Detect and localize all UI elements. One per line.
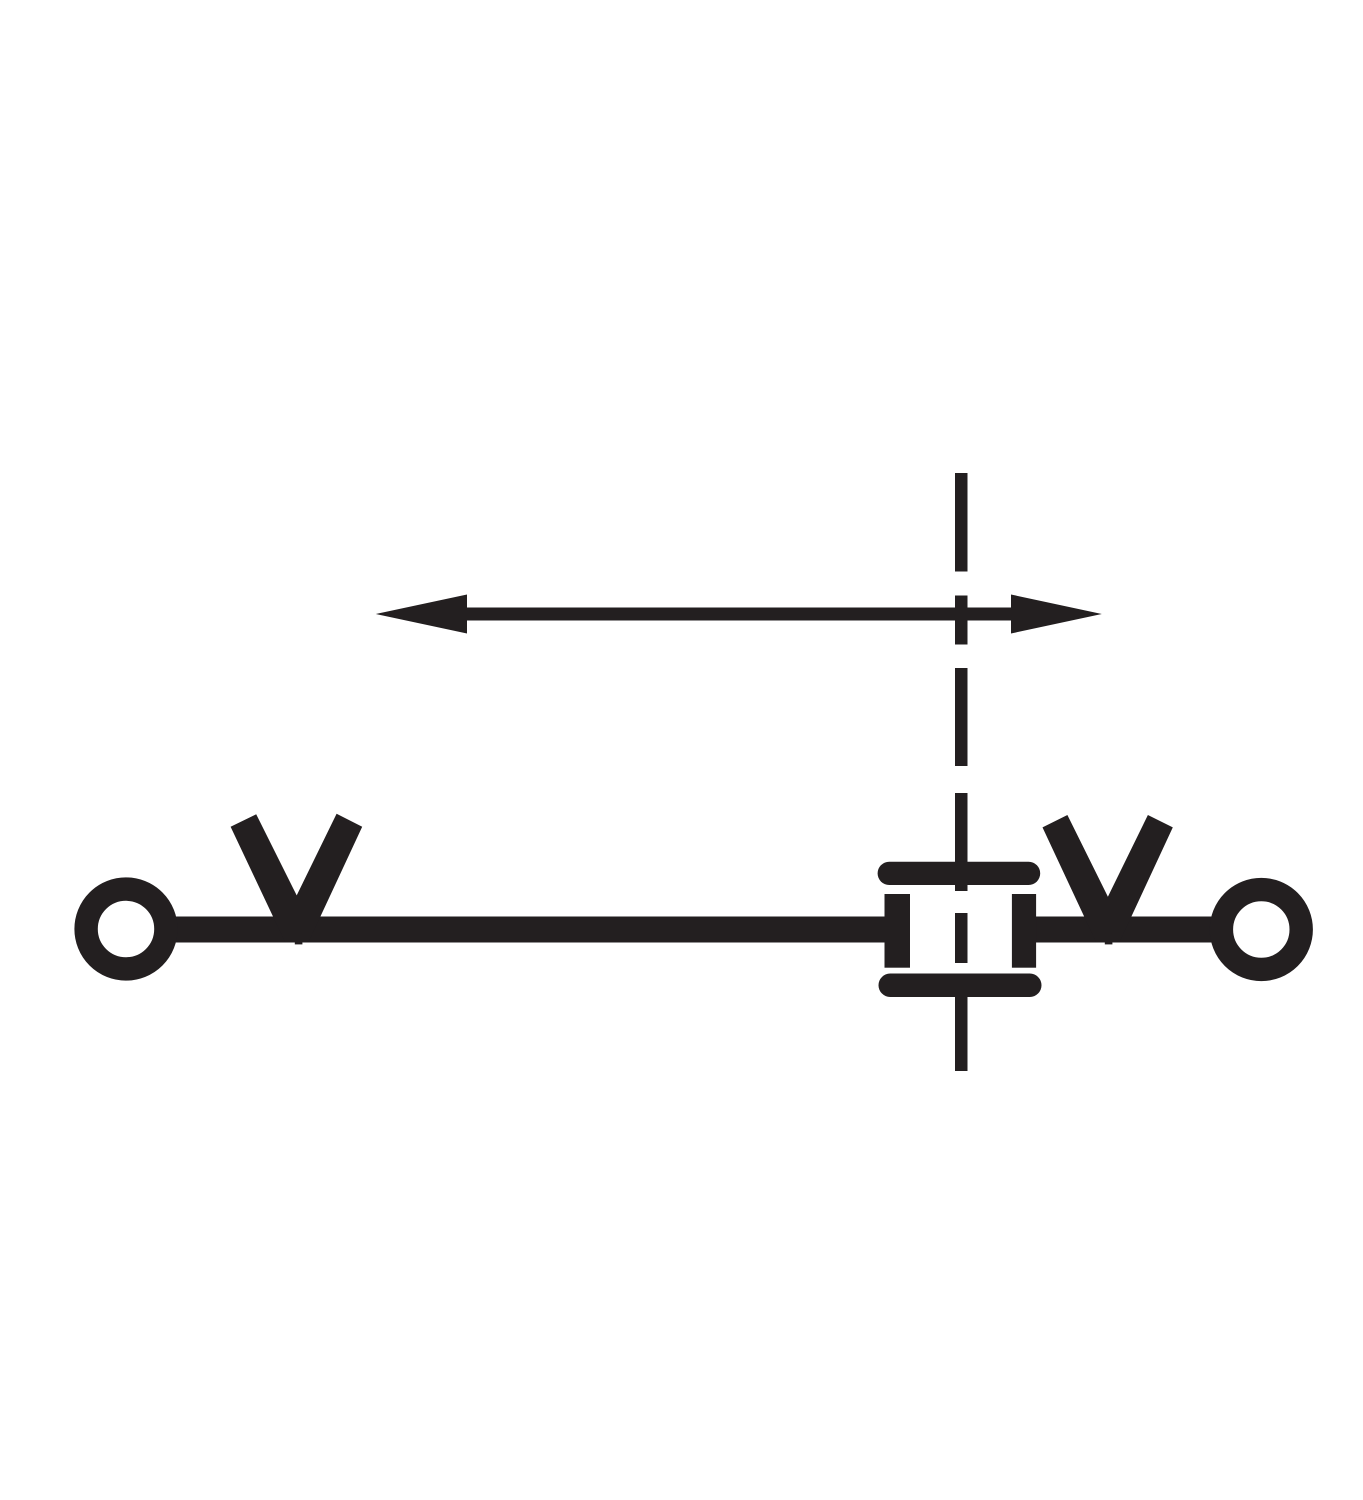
- terminal ring right (conductor entry O2): [1221, 890, 1301, 970]
- clamping point V1 (left connection chevron): [231, 814, 363, 943]
- separation plane dashed line, dash 6: [955, 985, 968, 1071]
- separation plane dashed line, dash 5: [955, 913, 968, 963]
- wire left segment (conductor rail from left terminal to disconnect): [126, 917, 885, 943]
- arrowhead right: [1011, 595, 1102, 634]
- clamping point V2 miter tip: [1105, 943, 1113, 945]
- disconnect plug top bar: [878, 862, 1041, 885]
- separation plane dashed line, dash 2: [955, 596, 968, 645]
- separation plane dashed line, dash 3: [955, 668, 968, 766]
- terminal ring left (conductor entry O1): [86, 889, 166, 969]
- wire right segment (conductor rail from disconnect to right terminal): [1036, 917, 1218, 943]
- clamping point V1 miter tip: [295, 943, 303, 945]
- double-headed arrow shaft: [462, 608, 1017, 621]
- clamping point V2 (right connection chevron): [1043, 815, 1173, 943]
- separation plane dashed line, dash 4: [955, 793, 968, 891]
- arrowhead left: [376, 595, 467, 634]
- separation plane dashed line, dash 1: [955, 473, 968, 572]
- disconnect plug bottom bar: [879, 974, 1042, 998]
- disconnect contact post left: [885, 894, 911, 968]
- disconnect contact post right: [1012, 894, 1036, 968]
